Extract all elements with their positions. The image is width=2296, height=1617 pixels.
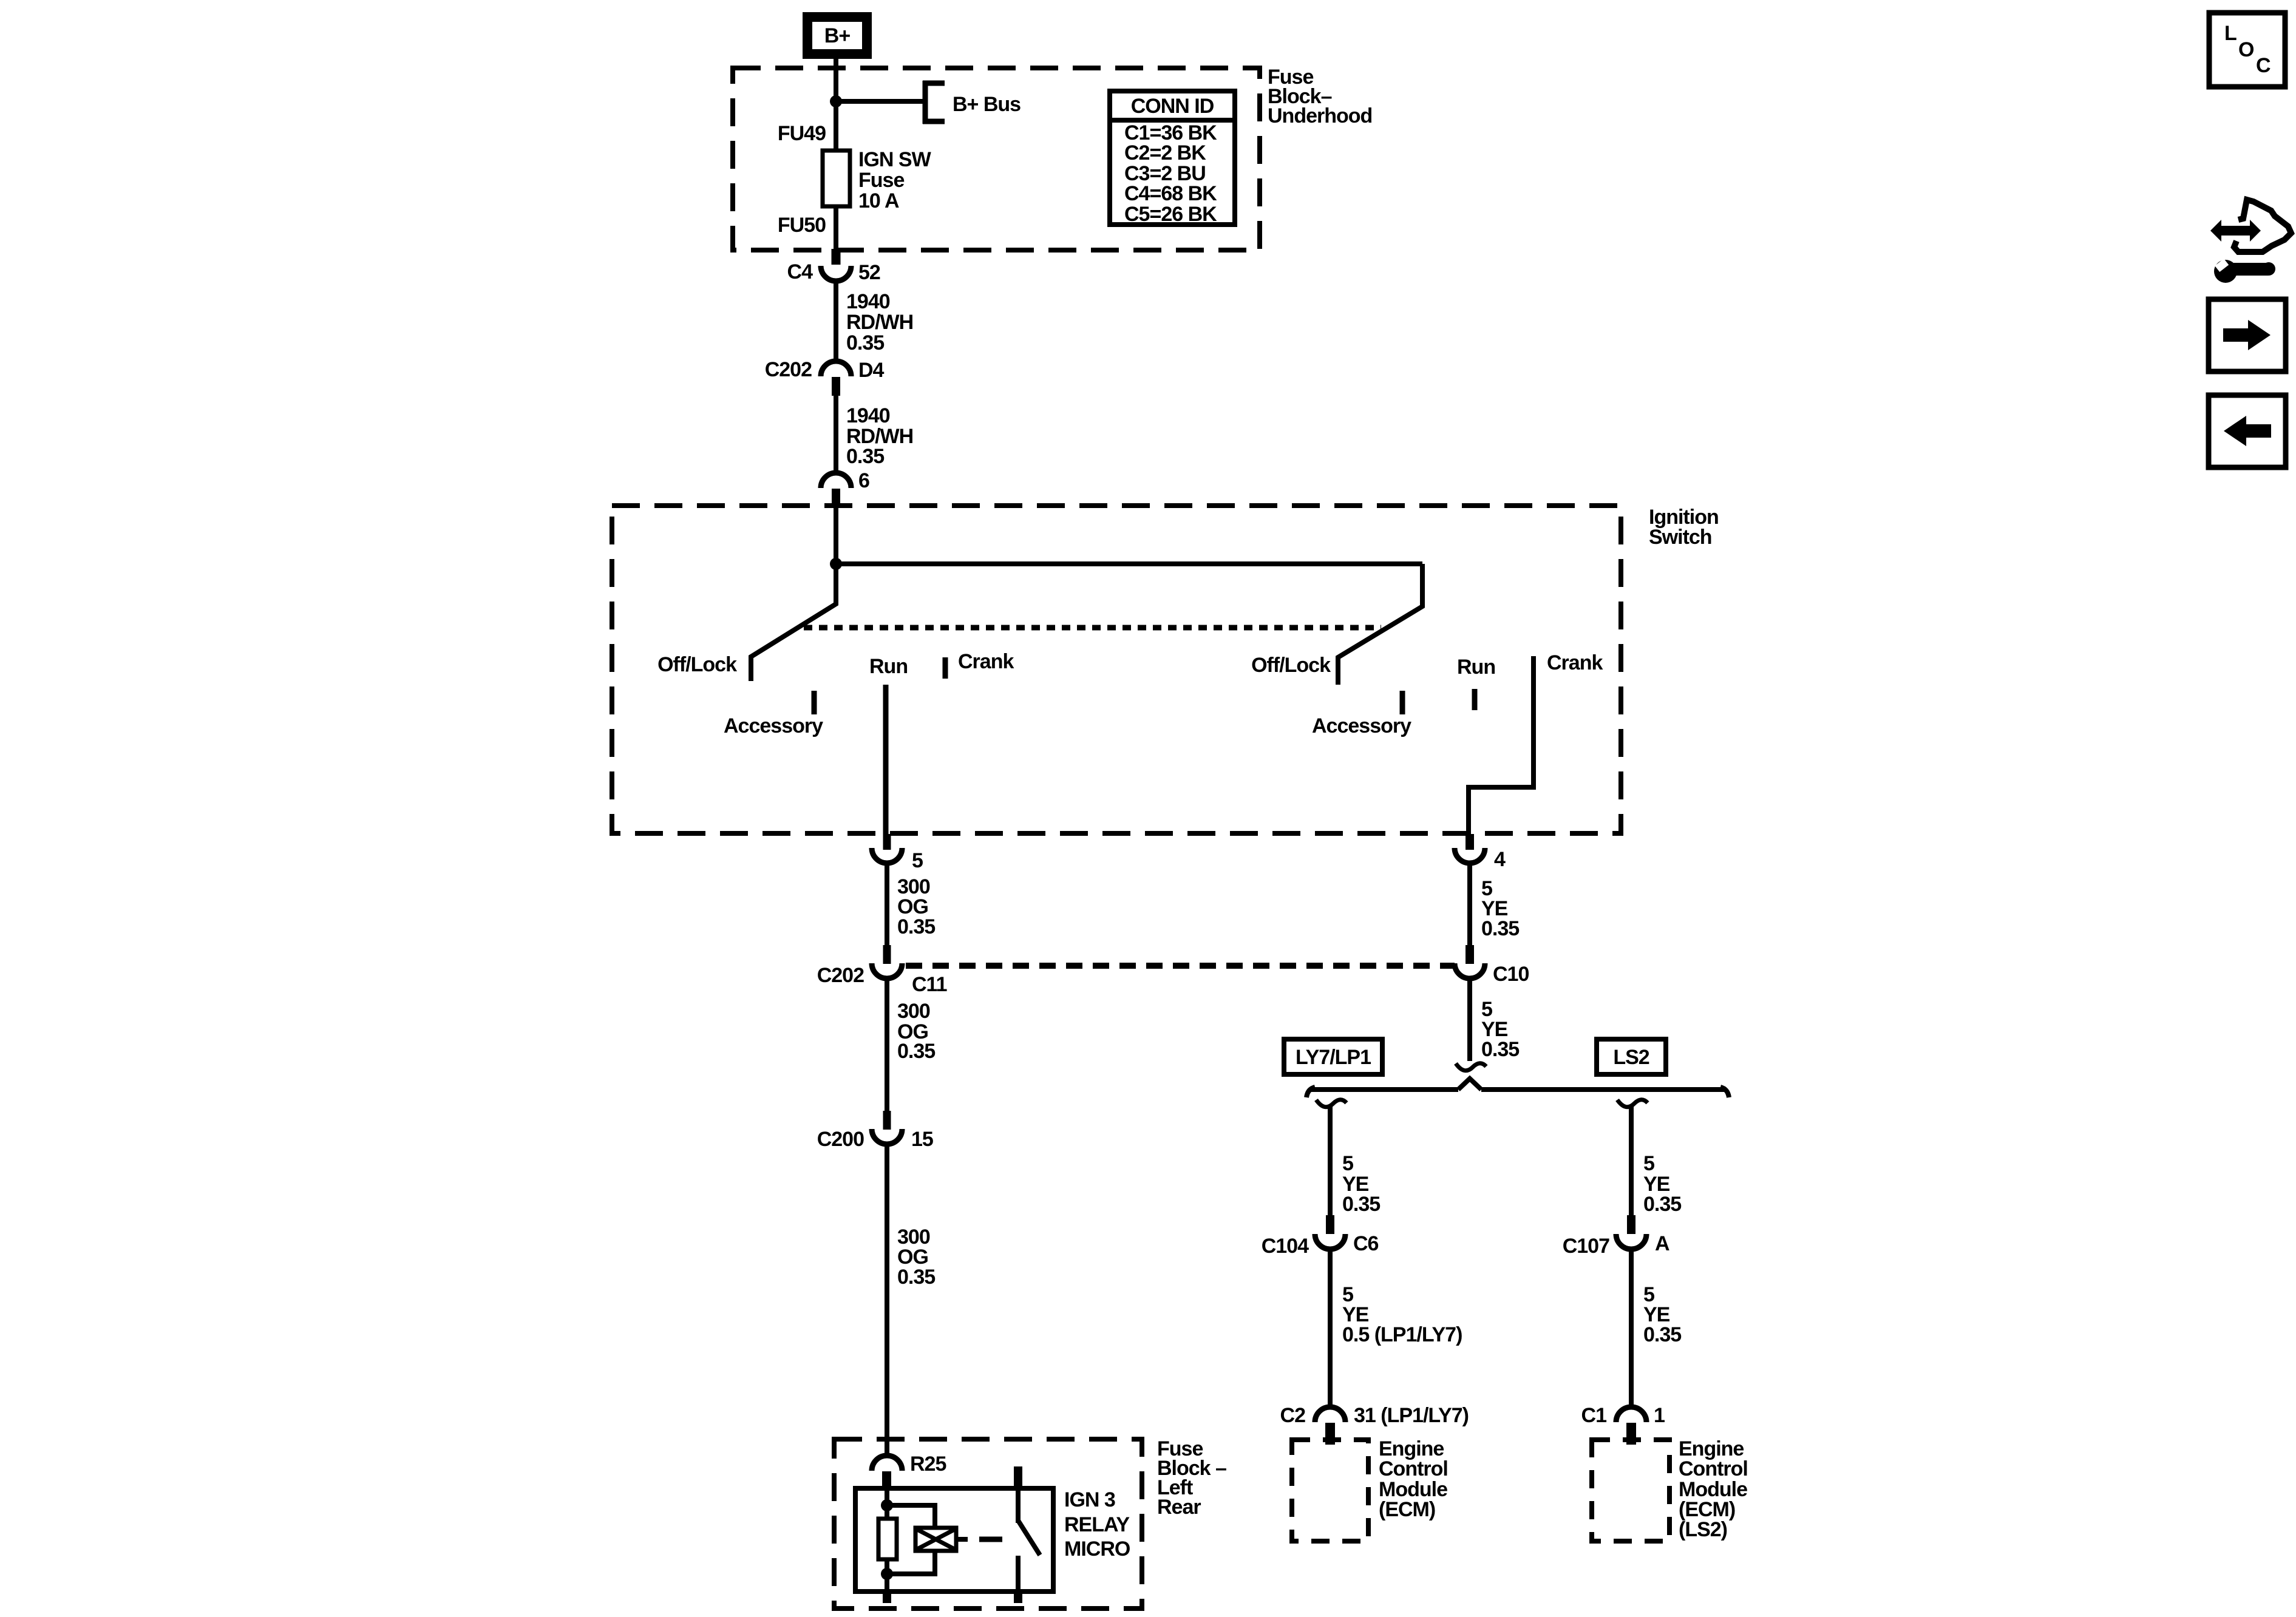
- back arrow box: [2209, 395, 2286, 467]
- svg-text:C200: C200: [817, 1128, 864, 1151]
- diagnostic icon double arrow: [2210, 220, 2261, 242]
- svg-text:Run: Run: [869, 655, 908, 678]
- svg-text:Switch: Switch: [1649, 526, 1712, 549]
- wire junction to right side: [836, 561, 1422, 566]
- wire pin 4 to C10: [1467, 865, 1472, 945]
- diagnostic icon wrench: [2214, 259, 2275, 283]
- svg-text:Rear: Rear: [1157, 1496, 1201, 1519]
- wire into relay: [885, 1488, 889, 1519]
- connector C1 pin 1: [1616, 1407, 1646, 1445]
- svg-text:IGN 3: IGN 3: [1064, 1488, 1115, 1511]
- svg-text:Control: Control: [1679, 1457, 1748, 1480]
- svg-text:C202: C202: [765, 358, 812, 381]
- wire label 5 YE 0.5 (LP1/LY7): [1342, 1283, 1462, 1346]
- forward arrow box: [2209, 299, 2286, 371]
- relay switch fixed contact: [1016, 1488, 1021, 1523]
- svg-text:Off/Lock: Off/Lock: [1251, 654, 1331, 677]
- svg-text:C4=68 BK: C4=68 BK: [1124, 182, 1217, 205]
- svg-text:MICRO: MICRO: [1064, 1537, 1130, 1561]
- wire C202 to connector 6: [834, 396, 838, 473]
- IGN SW Fuse 10 A label: [858, 148, 932, 212]
- svg-text:Accessory: Accessory: [1312, 714, 1411, 737]
- svg-text:(LS2): (LS2): [1679, 1518, 1727, 1541]
- wire C4 to C202: [834, 283, 838, 361]
- svg-text:Fuse: Fuse: [858, 169, 904, 192]
- relay resistor: [878, 1519, 897, 1559]
- svg-text:D4: D4: [858, 359, 885, 382]
- svg-text:0.35: 0.35: [1481, 917, 1519, 940]
- svg-text:O: O: [2238, 38, 2254, 61]
- svg-text:Underhood: Underhood: [1268, 104, 1372, 127]
- junction node top: [881, 1499, 893, 1511]
- svg-text:1: 1: [1654, 1404, 1665, 1427]
- fuse FU49/FU50 IGN SW Fuse 10 A: [823, 151, 850, 206]
- svg-text:C6: C6: [1353, 1232, 1379, 1255]
- svg-text:6: 6: [858, 469, 869, 492]
- ignition switch connector pin 6: [821, 473, 851, 507]
- svg-text:B+ Bus: B+ Bus: [953, 93, 1021, 116]
- wire label 300 OG 0.35: [897, 1000, 935, 1063]
- svg-text:0.35: 0.35: [1481, 1038, 1519, 1061]
- wire fuse to C4: [834, 206, 838, 250]
- junction node in ignition switch: [830, 558, 842, 570]
- svg-text:C5=26 BK: C5=26 BK: [1124, 203, 1217, 226]
- svg-text:C1: C1: [1581, 1404, 1607, 1427]
- wire label 300 OG 0.35: [897, 1225, 935, 1289]
- svg-text:Run: Run: [1457, 656, 1495, 679]
- wire pin 6 into ignition switch: [834, 507, 838, 566]
- connector C107 pin A: [1616, 1215, 1646, 1249]
- svg-text:C11: C11: [912, 973, 947, 996]
- svg-text:1940: 1940: [846, 404, 890, 427]
- connector C10: [1455, 945, 1485, 978]
- svg-text:1940: 1940: [846, 290, 890, 313]
- LOC reference box: [2209, 13, 2285, 87]
- svg-text:LS2: LS2: [1613, 1046, 1649, 1069]
- svg-text:Off/Lock: Off/Lock: [657, 653, 737, 676]
- left Crank contact: [943, 657, 948, 679]
- wire pin 5 to C202: [885, 865, 889, 945]
- Engine Control Module (ECM) (LS2) label: [1679, 1437, 1748, 1541]
- wire label 300 OG 0.35: [897, 875, 935, 938]
- mechanical linkage dotted line: [804, 625, 1381, 631]
- right Accessory contact: [1400, 691, 1405, 714]
- junction node: [830, 95, 842, 107]
- svg-text:C10: C10: [1493, 963, 1529, 986]
- ECM LP1/LY7 dashed box: [1292, 1440, 1368, 1541]
- svg-text:LY7/LP1: LY7/LP1: [1296, 1046, 1371, 1069]
- wire break symbol at splice: [1456, 1063, 1486, 1071]
- svg-text:R25: R25: [910, 1453, 946, 1476]
- relay switch blade: [1018, 1520, 1040, 1555]
- svg-text:Control: Control: [1379, 1457, 1448, 1480]
- relay coil winding box: [915, 1528, 956, 1551]
- wire junction to B+ Bus: [836, 99, 923, 104]
- svg-text:C: C: [2256, 54, 2271, 77]
- svg-text:B+: B+: [824, 24, 851, 47]
- svg-text:5: 5: [1643, 1152, 1654, 1175]
- IGN 3 relay box: [855, 1488, 1053, 1592]
- svg-text:A: A: [1655, 1232, 1669, 1255]
- B+ Bus connector bracket: [923, 81, 945, 124]
- svg-text:C104: C104: [1262, 1235, 1309, 1258]
- svg-text:C2: C2: [1280, 1404, 1306, 1427]
- ECM LS2 dashed box: [1592, 1440, 1669, 1541]
- svg-text:15: 15: [911, 1128, 933, 1151]
- Fuse Block - Underhood dashed box: [733, 68, 1260, 250]
- right branch wire to C107: [1629, 1106, 1634, 1215]
- connector C104 pin C6: [1315, 1215, 1345, 1249]
- svg-text:4: 4: [1494, 848, 1506, 871]
- connector pin 4: [1455, 834, 1485, 863]
- svg-text:Crank: Crank: [1547, 651, 1603, 674]
- connector C4 pin 52: [821, 249, 851, 281]
- svg-text:C107: C107: [1563, 1235, 1609, 1258]
- LS2 tag box: [1597, 1039, 1666, 1074]
- coil loop return: [887, 1551, 935, 1574]
- svg-text:5: 5: [912, 849, 923, 872]
- wire C200 to relay R25: [885, 1146, 889, 1456]
- svg-text:Accessory: Accessory: [724, 714, 823, 737]
- connector C200 pin 15: [872, 1111, 902, 1144]
- svg-text:L: L: [2224, 22, 2237, 45]
- svg-text:300: 300: [897, 1000, 930, 1023]
- right Run contact: [1472, 689, 1478, 710]
- svg-text:RELAY: RELAY: [1064, 1513, 1130, 1536]
- wire resistor to bottom junction: [885, 1559, 889, 1592]
- Fuse Block - Left Rear dashed box: [834, 1439, 1142, 1609]
- relay bottom pin: [883, 1590, 891, 1603]
- wire C107 to ECM C1: [1629, 1251, 1634, 1406]
- actuator dashed linkage: [979, 1537, 1002, 1542]
- engine option split bar: [1306, 1079, 1729, 1097]
- right switch wiper wire: [1338, 564, 1422, 685]
- svg-text:C4: C4: [787, 260, 813, 283]
- svg-text:0.5 (LP1/LY7): 0.5 (LP1/LY7): [1342, 1323, 1462, 1346]
- right branch break symbol: [1617, 1100, 1648, 1107]
- svg-text:52: 52: [858, 261, 880, 284]
- svg-text:0.35: 0.35: [897, 1040, 935, 1063]
- svg-text:FU49: FU49: [778, 122, 826, 145]
- wire C104 to ECM C2: [1328, 1251, 1333, 1406]
- svg-text:5: 5: [1342, 1152, 1353, 1175]
- svg-text:Crank: Crank: [958, 650, 1014, 673]
- Engine Control Module (ECM) label: [1379, 1437, 1448, 1521]
- svg-text:0.35: 0.35: [846, 331, 884, 354]
- wire label 5 YE 0.35: [1481, 877, 1519, 940]
- connector C202 pin D4: [821, 361, 851, 396]
- dashed wire C202 to C10: [906, 963, 1455, 969]
- Ignition Switch dashed box: [612, 506, 1621, 833]
- wire label 5 YE 0.35: [1643, 1152, 1681, 1216]
- connector C202 pin C11: [872, 945, 902, 978]
- wire B+ to junction: [834, 59, 838, 151]
- CONN ID table: [1110, 91, 1235, 226]
- wire C11 to C200: [885, 980, 889, 1111]
- svg-text:0.35: 0.35: [846, 445, 884, 468]
- svg-text:(ECM): (ECM): [1379, 1498, 1435, 1521]
- diagnostic icon part outline: [2234, 200, 2291, 252]
- Fuse Block - Left Rear label: [1157, 1437, 1226, 1519]
- coil actuator stub: [956, 1537, 968, 1542]
- wire label 1940 RD/WH 0.35: [846, 290, 913, 354]
- left Accessory contact: [812, 691, 817, 714]
- svg-text:0.35: 0.35: [897, 1266, 935, 1289]
- svg-text:FU50: FU50: [778, 214, 826, 237]
- svg-text:RD/WH: RD/WH: [846, 311, 913, 334]
- right Crank contact wire to pin 4: [1469, 656, 1533, 834]
- svg-text:0.35: 0.35: [1643, 1193, 1681, 1216]
- svg-text:31 (LP1/LY7): 31 (LP1/LY7): [1354, 1404, 1469, 1427]
- relay switch top pin: [1014, 1466, 1022, 1490]
- Ignition Switch label: [1649, 506, 1719, 549]
- connector pin 5: [872, 834, 902, 863]
- svg-text:0.35: 0.35: [1342, 1193, 1380, 1216]
- left branch break symbol: [1316, 1100, 1347, 1107]
- wire C10 to splice: [1467, 980, 1472, 1061]
- wire label 5 YE 0.35: [1481, 998, 1519, 1061]
- left branch wire to C104: [1328, 1106, 1333, 1215]
- connector C2 pin 31: [1315, 1407, 1345, 1445]
- svg-text:0.35: 0.35: [897, 915, 935, 938]
- svg-text:C2=2 BK: C2=2 BK: [1124, 141, 1206, 164]
- wire label 5 YE 0.35: [1342, 1152, 1380, 1216]
- battery feed B+ symbol: [803, 12, 872, 59]
- relay connector R25: [872, 1456, 902, 1488]
- left switch wiper wire: [751, 564, 836, 681]
- svg-text:CONN ID: CONN ID: [1131, 95, 1214, 118]
- LY7/LP1 tag box: [1284, 1039, 1382, 1074]
- relay switch lower contact: [1016, 1556, 1021, 1592]
- relay coil branch loop: [887, 1505, 935, 1528]
- svg-text:10 A: 10 A: [858, 189, 899, 212]
- relay switch bottom pin: [1014, 1590, 1022, 1603]
- left Run contact wire: [883, 685, 889, 834]
- junction node bottom: [881, 1568, 893, 1580]
- wire label 5 YE 0.35: [1643, 1283, 1681, 1346]
- IGN 3 RELAY MICRO label: [1064, 1488, 1130, 1561]
- wire label 1940 RD/WH 0.35: [846, 404, 913, 468]
- svg-text:IGN SW: IGN SW: [858, 148, 932, 171]
- svg-text:0.35: 0.35: [1643, 1323, 1681, 1346]
- Fuse Block - Underhood label: [1268, 66, 1372, 127]
- svg-text:C202: C202: [817, 964, 864, 987]
